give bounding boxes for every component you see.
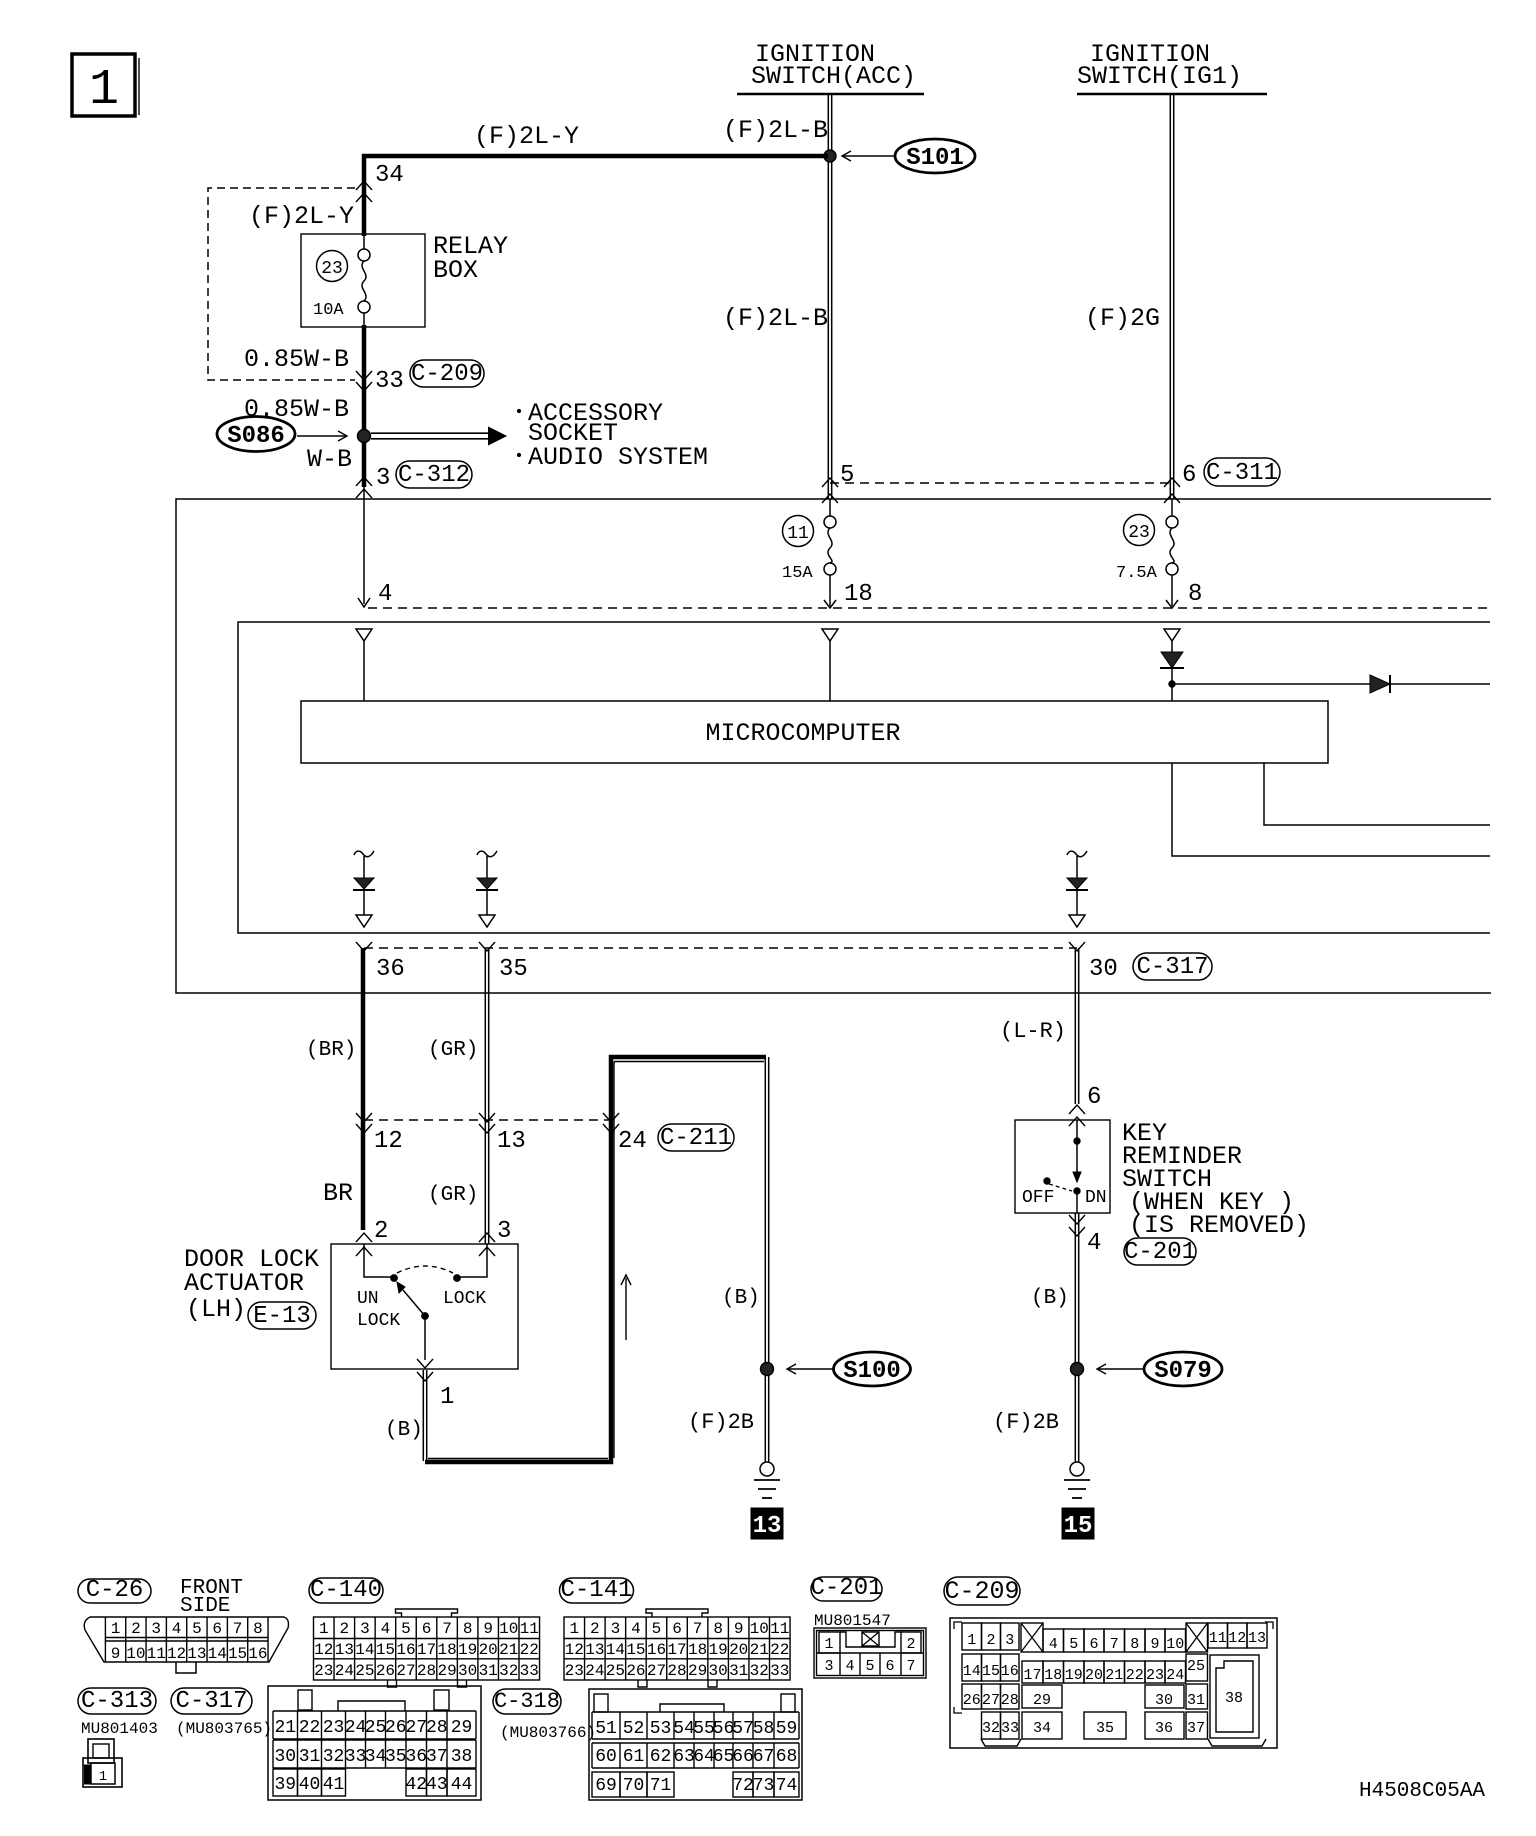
ETACS unit outer box: [176, 499, 1491, 993]
svg-text:57: 57: [732, 1719, 754, 1739]
svg-text:30: 30: [1155, 1692, 1173, 1709]
connector C-317 label: [171, 1688, 252, 1714]
svg-text:68: 68: [776, 1747, 798, 1767]
splice S079 junction dot: [1071, 1363, 1084, 1376]
svg-text:10: 10: [750, 1620, 769, 1638]
svg-text:(MU803765): (MU803765): [176, 1720, 272, 1738]
wire (B)/(F)2B key switch to ground, double: [1074, 1213, 1076, 1462]
dashed connector line inside unit: [368, 607, 1490, 609]
svg-text:13: 13: [497, 1128, 526, 1155]
svg-text:S100: S100: [843, 1358, 901, 1385]
wire microcomputer to other circuits upper: [1264, 763, 1490, 825]
svg-text:12: 12: [565, 1641, 584, 1659]
svg-text:9: 9: [483, 1620, 493, 1638]
pin 24 chevrons: [603, 1113, 619, 1122]
actuator pin 3 chevrons: [479, 1233, 495, 1242]
current direction arrow: [625, 1278, 627, 1340]
svg-text:3: 3: [376, 465, 390, 492]
svg-text:32: 32: [982, 1720, 1000, 1737]
arrow from S086 to junction: [297, 435, 346, 437]
connector C-317 body: [268, 1686, 481, 1800]
C-201 pin 1 cell: [819, 1632, 840, 1653]
svg-text:2: 2: [590, 1620, 600, 1638]
C-201 pin 2 cell: [901, 1632, 921, 1653]
key switch wire to pin 4: [1076, 1191, 1078, 1213]
driver output symbol pin 30: [1067, 851, 1087, 857]
svg-text:29: 29: [1033, 1692, 1051, 1709]
svg-text:13: 13: [335, 1641, 354, 1659]
svg-text:3: 3: [1005, 1632, 1014, 1649]
svg-text:10: 10: [126, 1645, 145, 1663]
svg-text:26: 26: [376, 1662, 395, 1680]
svg-text:S079: S079: [1154, 1358, 1212, 1385]
svg-text:9: 9: [1150, 1636, 1159, 1653]
connector C-318 body: [589, 1689, 802, 1800]
svg-text:5: 5: [652, 1620, 662, 1638]
svg-text:C-211: C-211: [660, 1125, 732, 1152]
arrow from S101 to junction: [843, 155, 895, 157]
svg-text:33: 33: [345, 1747, 367, 1767]
svg-text:67: 67: [753, 1747, 775, 1767]
wire BR thick (pin 36 to actuator pin 2): [361, 948, 366, 1230]
connector C-140 label: [309, 1578, 383, 1603]
svg-text:17: 17: [417, 1641, 436, 1659]
fuse number circle 11: [783, 516, 814, 547]
svg-text:30: 30: [274, 1747, 296, 1767]
svg-text:38: 38: [451, 1747, 473, 1767]
svg-text:1: 1: [967, 1632, 976, 1649]
svg-text:1: 1: [111, 1620, 121, 1638]
svg-text:36: 36: [376, 956, 405, 983]
svg-text:2: 2: [374, 1218, 388, 1245]
diode to other circuit: [1172, 683, 1490, 685]
unlock contact dot: [391, 1275, 398, 1282]
svg-text:34: 34: [375, 162, 404, 189]
svg-text:19: 19: [709, 1641, 728, 1659]
svg-text:(BR): (BR): [306, 1039, 356, 1062]
label audio system: [517, 453, 520, 456]
svg-text:37: 37: [426, 1747, 448, 1767]
svg-text:5: 5: [865, 1658, 874, 1675]
svg-text:1: 1: [319, 1620, 329, 1638]
svg-text:24: 24: [335, 1662, 354, 1680]
ground reference 13: [751, 1508, 783, 1539]
svg-text:37: 37: [1187, 1720, 1205, 1737]
connector C-209 label: [410, 360, 484, 387]
svg-text:24: 24: [618, 1128, 647, 1155]
fuse 11 15A: [829, 499, 831, 516]
svg-text:E-13: E-13: [253, 1303, 311, 1330]
svg-text:41: 41: [323, 1775, 345, 1795]
C-209 bottom tabs: [981, 1739, 1021, 1746]
svg-text:DN: DN: [1085, 1188, 1107, 1208]
splice S100 junction dot: [761, 1363, 774, 1376]
svg-text:21: 21: [274, 1718, 296, 1738]
svg-text:32: 32: [323, 1747, 345, 1767]
svg-text:51: 51: [595, 1719, 617, 1739]
svg-text:21: 21: [750, 1641, 769, 1659]
svg-text:C-318: C-318: [494, 1689, 560, 1714]
connector C-318 label: [493, 1689, 561, 1714]
svg-text:26: 26: [963, 1692, 981, 1709]
svg-text:(F)2L-Y: (F)2L-Y: [474, 122, 579, 151]
connector pin 6 chevrons: [1164, 478, 1180, 487]
svg-text:12: 12: [167, 1645, 186, 1663]
svg-text:4: 4: [1049, 1636, 1058, 1653]
svg-text:C-313: C-313: [81, 1688, 153, 1715]
svg-text:33: 33: [375, 368, 404, 395]
svg-text:22: 22: [770, 1641, 789, 1659]
svg-text:40: 40: [299, 1775, 321, 1795]
C-209 row4 cells pins 32-37: [982, 1712, 1001, 1739]
svg-text:14: 14: [606, 1641, 625, 1659]
svg-text:14: 14: [963, 1663, 981, 1680]
svg-text:15A: 15A: [782, 564, 813, 583]
svg-text:C-26: C-26: [86, 1577, 144, 1604]
svg-text:5: 5: [840, 462, 854, 489]
input triangle pin4 line: [356, 629, 372, 641]
svg-text:6: 6: [1087, 1084, 1101, 1111]
svg-text:27: 27: [982, 1692, 1000, 1709]
svg-text:30: 30: [458, 1662, 477, 1680]
pin 12 chevrons: [356, 1113, 372, 1122]
C-209 X keyway cell 1: [1021, 1623, 1043, 1652]
svg-text:34: 34: [1033, 1720, 1051, 1737]
svg-text:23: 23: [314, 1662, 333, 1680]
svg-text:(B): (B): [385, 1419, 423, 1442]
dashed connector line C-317: [364, 947, 1077, 949]
svg-text:27: 27: [396, 1662, 415, 1680]
fuse number circle 23: [1124, 515, 1155, 546]
svg-text:(F)2L-Y: (F)2L-Y: [249, 202, 354, 231]
svg-text:1: 1: [89, 62, 119, 119]
zener diode on IG1 input: [1161, 652, 1183, 668]
connector C-209 label: [944, 1577, 1020, 1605]
svg-text:29: 29: [437, 1662, 456, 1680]
svg-text:15: 15: [982, 1663, 1000, 1680]
actuator pin 2 chevrons: [356, 1233, 372, 1242]
svg-text:54: 54: [673, 1719, 695, 1739]
svg-text:18: 18: [688, 1641, 707, 1659]
C-209 row2 cells pins 14-16: [962, 1654, 982, 1681]
fuse number circle 23: [317, 251, 348, 282]
C-209 row1 cells pins 1-3: [962, 1623, 982, 1650]
wire microcomputer to other circuits lower: [1172, 763, 1490, 856]
svg-text:BR: BR: [323, 1179, 353, 1208]
svg-text:4: 4: [381, 1620, 391, 1638]
svg-text:13: 13: [753, 1513, 782, 1540]
svg-text:AUDIO SYSTEM: AUDIO SYSTEM: [528, 443, 708, 472]
svg-text:21: 21: [499, 1641, 518, 1659]
svg-text:20: 20: [1085, 1667, 1103, 1684]
lock contact dot: [454, 1275, 461, 1282]
svg-text:20: 20: [729, 1641, 748, 1659]
connector C-141 label: [560, 1578, 634, 1603]
svg-text:58: 58: [753, 1719, 775, 1739]
svg-text:34: 34: [365, 1747, 387, 1767]
svg-text:8: 8: [1188, 581, 1202, 608]
svg-text:6: 6: [885, 1658, 894, 1675]
wire W-B thick vertical (pins 34-33-3): [362, 154, 367, 236]
key switch internal: [1076, 1120, 1078, 1172]
svg-text:C-209: C-209: [944, 1577, 1019, 1606]
svg-text:3: 3: [151, 1620, 161, 1638]
svg-text:59: 59: [776, 1719, 798, 1739]
svg-text:14: 14: [355, 1641, 374, 1659]
svg-text:28: 28: [417, 1662, 436, 1680]
microcomputer section inner box: [238, 622, 1490, 933]
C-209 pin 25 cell: [1186, 1654, 1208, 1681]
svg-text:20: 20: [479, 1641, 498, 1659]
svg-text:16: 16: [1001, 1663, 1019, 1680]
svg-text:0.85W-B: 0.85W-B: [244, 395, 349, 424]
connector pin 5 chevrons: [822, 478, 838, 487]
svg-text:63: 63: [673, 1747, 695, 1767]
svg-text:(LH): (LH): [186, 1295, 246, 1324]
svg-text:7: 7: [693, 1620, 703, 1638]
dashed connector line C-311: [830, 482, 1172, 484]
svg-text:29: 29: [451, 1718, 473, 1738]
svg-text:15: 15: [1064, 1513, 1093, 1540]
svg-text:19: 19: [1065, 1667, 1083, 1684]
svg-text:29: 29: [688, 1662, 707, 1680]
thick ground wire loop via C-211: [425, 1057, 766, 1462]
svg-text:S101: S101: [906, 145, 964, 172]
C-140 bottom tabs: [388, 1680, 397, 1687]
svg-text:26: 26: [626, 1662, 645, 1680]
pin 30 chevron: [1069, 942, 1085, 951]
svg-text:12: 12: [314, 1641, 333, 1659]
svg-text:52: 52: [623, 1719, 645, 1739]
svg-text:W-B: W-B: [307, 445, 352, 474]
svg-text:27: 27: [405, 1718, 427, 1738]
svg-text:7: 7: [1110, 1636, 1119, 1653]
svg-text:4: 4: [378, 581, 392, 608]
svg-text:62: 62: [650, 1747, 672, 1767]
svg-text:(GR): (GR): [428, 1039, 478, 1062]
connector C-313 label: [78, 1688, 156, 1714]
svg-text:8: 8: [463, 1620, 473, 1638]
connector C-311 label: [1204, 458, 1280, 486]
svg-text:72: 72: [732, 1776, 754, 1796]
svg-text:25: 25: [606, 1662, 625, 1680]
key switch pin 6 chevrons: [1069, 1105, 1085, 1114]
svg-text:1: 1: [824, 1636, 833, 1653]
svg-text:42: 42: [405, 1775, 427, 1795]
dashed harness boundary box: [208, 188, 355, 380]
svg-text:56: 56: [713, 1719, 735, 1739]
svg-text:28: 28: [1001, 1692, 1019, 1709]
connector E-13 label: [248, 1302, 316, 1329]
svg-text:12: 12: [374, 1128, 403, 1155]
svg-text:4: 4: [631, 1620, 641, 1638]
wire pin1 (B) double down: [422, 1370, 424, 1461]
svg-text:11: 11: [770, 1620, 789, 1638]
svg-text:(F)2B: (F)2B: [993, 1410, 1059, 1435]
svg-text:27: 27: [647, 1662, 666, 1680]
svg-text:(F)2L-B: (F)2L-B: [723, 116, 828, 145]
svg-text:6: 6: [212, 1620, 222, 1638]
C-209 corner notches: [954, 1622, 962, 1629]
svg-text:3: 3: [360, 1620, 370, 1638]
svg-text:1: 1: [569, 1620, 579, 1638]
svg-text:22: 22: [520, 1641, 539, 1659]
svg-text:(MU803766): (MU803766): [500, 1724, 596, 1742]
svg-text:32: 32: [499, 1662, 518, 1680]
C-209 pin 29 cell: [1022, 1685, 1062, 1708]
off contact dot: [1044, 1178, 1050, 1184]
svg-text:11: 11: [1209, 1630, 1227, 1647]
wire (F)2G from ignition IG1, double line: [1169, 94, 1171, 499]
svg-text:16: 16: [248, 1645, 267, 1663]
wire (F)2L-B from ignition ACC, double line: [827, 94, 829, 499]
wire (F)2L-Y thick horizontal: [362, 154, 828, 159]
branch arrow to accessory socket / audio system: [371, 432, 489, 434]
svg-text:18: 18: [1044, 1667, 1062, 1684]
svg-text:2: 2: [340, 1620, 350, 1638]
svg-text:33: 33: [520, 1662, 539, 1680]
C-26 bottom notch: [176, 1662, 196, 1673]
svg-text:60: 60: [595, 1747, 617, 1767]
connector C-141 top tab: [646, 1609, 708, 1617]
svg-text:38: 38: [1225, 1690, 1243, 1707]
C-209 pin 38 cell: [1210, 1655, 1259, 1738]
microcomputer box: [301, 701, 1328, 763]
svg-text:15: 15: [228, 1645, 247, 1663]
splice label S100: [834, 1352, 911, 1386]
svg-text:13: 13: [585, 1641, 604, 1659]
C-209 row3 cells pins 26-28: [962, 1684, 982, 1709]
splice label S079: [1144, 1352, 1222, 1386]
fuse element 10A: [363, 234, 365, 249]
connector C-201 body: [814, 1628, 926, 1678]
svg-text:23: 23: [323, 1718, 345, 1738]
svg-text:28: 28: [426, 1718, 448, 1738]
svg-text:33: 33: [1001, 1720, 1019, 1737]
svg-text:25: 25: [1187, 1658, 1205, 1675]
svg-text:6: 6: [1182, 462, 1196, 489]
svg-text:2: 2: [986, 1632, 995, 1649]
page marker 1: [72, 54, 135, 116]
svg-text:36: 36: [1155, 1720, 1173, 1737]
svg-text:LOCK: LOCK: [443, 1289, 486, 1309]
connector pin 33 chevrons: [356, 371, 372, 380]
svg-text:7: 7: [906, 1658, 915, 1675]
key switch pin 4 chevrons: [1069, 1215, 1085, 1224]
C-209 X keyway cell 2: [1186, 1623, 1208, 1652]
connector C-317 label: [1133, 953, 1212, 980]
svg-text:35: 35: [385, 1747, 407, 1767]
svg-text:35: 35: [499, 956, 528, 983]
svg-text:(F)2G: (F)2G: [1085, 304, 1160, 333]
actuator pin 1 wire: [424, 1316, 426, 1360]
svg-text:SWITCH(ACC): SWITCH(ACC): [751, 62, 916, 91]
arrow from S100: [788, 1368, 834, 1370]
svg-text:7: 7: [442, 1620, 452, 1638]
svg-text:31: 31: [299, 1747, 321, 1767]
svg-text:24: 24: [1166, 1667, 1184, 1684]
pin 35 chevron: [479, 942, 495, 951]
ground reference 15: [1062, 1508, 1094, 1539]
svg-text:30: 30: [1089, 956, 1118, 983]
svg-text:16: 16: [396, 1641, 415, 1659]
svg-text:70: 70: [623, 1776, 645, 1796]
C-209 row1 cells pins 11-13: [1208, 1623, 1228, 1648]
svg-text:53: 53: [650, 1719, 672, 1739]
svg-text:UN: UN: [357, 1289, 379, 1309]
switch lever with arrow: [403, 1290, 425, 1316]
svg-text:(L-R): (L-R): [1000, 1019, 1066, 1044]
svg-text:C-201: C-201: [810, 1575, 882, 1602]
svg-text:23: 23: [1146, 1667, 1164, 1684]
wire (L-R) double from pin 30: [1074, 948, 1076, 1104]
svg-text:22: 22: [299, 1718, 321, 1738]
C-317 pin grid rows: [273, 1710, 476, 1712]
svg-text:C-317: C-317: [175, 1688, 247, 1715]
C-209 pin 30 cell: [1145, 1685, 1184, 1708]
svg-text:(GR): (GR): [428, 1184, 478, 1207]
svg-text:17: 17: [667, 1641, 686, 1659]
node junction dot: [1169, 681, 1175, 687]
svg-text:4: 4: [1087, 1230, 1101, 1257]
connector pin 34 chevrons: [356, 181, 372, 190]
svg-text:39: 39: [274, 1775, 296, 1795]
svg-text:31: 31: [729, 1662, 748, 1680]
svg-text:SIDE: SIDE: [180, 1595, 230, 1618]
svg-text:C-140: C-140: [310, 1577, 382, 1604]
svg-text:C-141: C-141: [560, 1577, 632, 1604]
svg-text:9: 9: [111, 1645, 121, 1663]
svg-text:1: 1: [99, 1769, 107, 1785]
svg-text:73: 73: [753, 1776, 775, 1796]
svg-text:6: 6: [422, 1620, 432, 1638]
svg-text:2: 2: [131, 1620, 141, 1638]
wire (B)/(F)2B to ground, double: [764, 1057, 766, 1462]
svg-text:5: 5: [1069, 1636, 1078, 1653]
dashed link OFF-DN: [1049, 1184, 1072, 1191]
C-201 keyway: [840, 1632, 901, 1647]
svg-text:31: 31: [1187, 1692, 1205, 1709]
actuator switch wiring: [364, 1244, 391, 1277]
svg-text:64: 64: [693, 1747, 715, 1767]
C-209 pin 31 cell: [1186, 1684, 1208, 1709]
svg-text:(F)2B: (F)2B: [688, 1410, 754, 1435]
C-317 top tabs: [298, 1690, 312, 1710]
key reminder switch box: [1015, 1120, 1110, 1213]
svg-text:10A: 10A: [313, 301, 344, 320]
svg-text:32: 32: [750, 1662, 769, 1680]
svg-text:65: 65: [713, 1747, 735, 1767]
connector C-313 body: [88, 1739, 114, 1763]
wire GR double (pin 35 to actuator pin 3): [484, 948, 486, 1244]
dashed switch arc: [397, 1266, 453, 1273]
svg-text:S086: S086: [227, 423, 285, 450]
svg-text:14: 14: [208, 1645, 227, 1663]
lever pivot dot: [422, 1313, 429, 1320]
svg-text:1: 1: [440, 1384, 454, 1411]
svg-text:5: 5: [401, 1620, 411, 1638]
splice S101 junction dot: [824, 150, 836, 162]
svg-text:69: 69: [595, 1776, 617, 1796]
svg-text:4: 4: [845, 1658, 854, 1675]
dashed connector line C-211: [364, 1119, 611, 1121]
svg-text:(B): (B): [1031, 1287, 1069, 1310]
splice label S086: [217, 417, 295, 452]
svg-text:3: 3: [497, 1218, 511, 1245]
svg-text:5: 5: [192, 1620, 202, 1638]
svg-text:23: 23: [321, 259, 343, 279]
svg-text:MICROCOMPUTER: MICROCOMPUTER: [705, 719, 900, 748]
